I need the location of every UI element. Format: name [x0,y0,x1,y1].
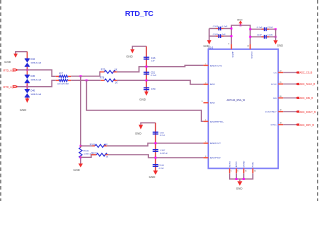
svg-text:IOVDD: IOVDD [250,52,252,59]
wire (RTD_A_P to choke) [18,70,56,77]
svg-text:AIN2: AIN2 [210,102,216,105]
svg-text:18: 18 [280,123,282,125]
svg-text:R105: R105 [90,144,96,146]
svg-text:8: 8 [205,156,206,158]
node junction (D45/D46/RTD_A_N) [26,86,28,88]
node junction (rail/AIN6 line) [155,142,157,144]
wire (choke top out, AIN0 path) [71,72,101,76]
svg-text:GND: GND [4,60,11,64]
capacitor C104 [257,27,274,31]
U16 pin AIN6 (left) [203,141,221,145]
svg-text:ADC_CS_B: ADC_CS_B [300,72,313,75]
capacitor C94 [153,132,166,138]
svg-text:D45: D45 [31,75,36,78]
wire + net flag ADC_DIN_B [283,97,313,100]
svg-text:0.1uF: 0.1uF [257,27,263,29]
svg-text:RTD_TC: RTD_TC [125,9,154,18]
U16 pin SYNC (right) [271,123,284,127]
svg-text:4: 4 [205,120,206,122]
svg-text:D44: D44 [31,58,36,61]
svg-text:0.1uF: 0.1uF [222,26,228,28]
svg-text:GND: GND [73,168,80,172]
wire (choke bottom out, AIN1 path) [71,79,101,81]
svg-text:GND: GND [139,98,146,102]
svg-text:C104: C104 [267,27,273,29]
U16 pin AIN7 (left) [203,156,221,160]
svg-text:R107: R107 [91,153,97,155]
TVS diode D44 [25,58,42,70]
svg-text:GND: GND [126,55,133,59]
ground G5 (divider bottom) [73,164,83,172]
node junction (D44/D45/RTD_A_P) [26,69,28,71]
svg-text:SMBJ5.0A: SMBJ5.0A [31,93,42,96]
svg-text:R76: R76 [100,77,105,80]
svg-text:22: 22 [280,71,282,73]
node junction (ground bus) [235,178,237,180]
common-mode choke L17 [56,72,71,86]
svg-text:AVDD: AVDD [231,52,234,58]
svg-text:ADC_DOUT_B: ADC_DOUT_B [300,111,316,114]
wire (R76 to C51 rail and AIN1 pin) [117,80,203,84]
ground G2 (bottom of TVS chain) [20,99,30,113]
node junction (divider bottom tap) [80,156,82,158]
svg-text:C105: C105 [213,34,219,36]
U16 pin REFOUT (bottom) [229,161,231,173]
resistor R76 [100,77,118,85]
wire + net flag ADC_DOUT_B [283,111,316,114]
node junction (IOVDD/branch bottom) [249,36,251,38]
node junction (ground bus 2) [243,178,245,180]
svg-text:19: 19 [280,110,282,112]
wire (divider top to R105) [81,145,95,147]
svg-text:21: 21 [280,82,282,84]
node junction (rail/AIN1 line) [145,79,147,81]
sheet border left [0,0,2,201]
svg-text:C103: C103 [213,26,219,28]
svg-text:DIN: DIN [273,98,277,100]
svg-text:2: 2 [205,82,206,84]
U16 pin DIN (right) [273,96,283,100]
svg-text:D46: D46 [31,90,36,93]
resistor R105 [90,144,108,147]
wire (G1 to D44) [26,52,28,59]
svg-text:9: 9 [228,44,229,46]
node junction (divider top) [80,145,82,147]
svg-text:GND: GND [20,108,27,112]
svg-text:1K: 1K [115,81,118,84]
svg-text:SCLK: SCLK [271,84,277,86]
svg-text:SMBJ5.0A: SMBJ5.0A [31,62,42,65]
capacitor C51 [144,72,157,78]
svg-text:GND: GND [149,175,156,179]
node junction B (bottom row tap) [86,79,88,81]
svg-text:4.7uF: 4.7uF [159,168,165,170]
ground G8 (left decoupling) [203,40,211,48]
wire + net flag ADC_CS_B [283,71,312,74]
U16 pin AIN3/REFIN (left) [203,120,224,124]
wire (left decoupling branch bottom) [209,35,231,37]
capacitor C108 [153,164,165,170]
wire (R107 to C107 rail and AIN7 pin) [108,155,203,158]
capacitor C70 [144,87,156,91]
capacitor C107 [153,149,169,155]
TVS diode D45 [25,71,42,87]
svg-text:L17: L17 [59,72,64,75]
ground G6 (top of TC cap rail) [135,123,156,136]
node junction (rail/AIN0 line) [145,66,147,68]
svg-text:1: 1 [205,64,206,66]
svg-text:CS: CS [274,72,278,74]
svg-text:AVSS: AVSS [235,161,238,167]
ground G1 (top of TVS chain) [4,52,27,65]
svg-text:AIN6/IOUT: AIN6/IOUT [210,142,221,145]
node junction (right branch bottom end) [275,36,277,38]
svg-text:ADC_DIN_B: ADC_DIN_B [300,97,314,100]
node junction (IOVDD/branch top) [249,28,251,30]
capacitor C16 [144,57,156,63]
wire (R75 to C51 rail and AIN0 pin) [117,65,203,72]
wire (right decoupling branch bottom) [250,36,275,38]
svg-text:1uF: 1uF [151,61,155,63]
svg-text:0.047uF: 0.047uF [160,153,168,155]
resistor R106 (bias divider, vertical) [79,146,94,158]
svg-text:GND: GND [135,131,142,135]
node junction (right branch top end) [275,28,277,30]
wire (tap A down to bias divider) [80,76,82,146]
node junction (rail/AIN7 line) [155,157,157,159]
U16 pin CS (right) [274,71,284,75]
ground G9 (right decoupling) [273,40,283,47]
svg-text:3: 3 [202,101,203,103]
wire (right decoupling branch top) [250,28,275,30]
capacitor C103 [213,26,228,30]
wire (tap B to REFIN pin) [87,80,204,121]
U16 pin AIN0 (left) [203,64,222,68]
svg-text:AIN3/REFIN1-: AIN3/REFIN1- [210,120,224,123]
U16 pin AVDD (top) [228,44,234,58]
svg-text:AD7124_RSA_W: AD7124_RSA_W [227,99,246,102]
svg-text:R106: R106 [84,151,90,153]
svg-text:AIN1: AIN1 [210,83,216,86]
U16 pin DOUT/RDY (right) [265,110,283,114]
op-amp/ADC U16 body [208,46,278,169]
wire (divider to ground) [80,157,82,163]
svg-text:GND: GND [203,44,209,48]
wire (left branches to ground) [208,29,210,41]
svg-text:GND: GND [277,43,283,47]
svg-text:DGND: DGND [244,160,246,167]
svg-text:10: 10 [247,46,249,48]
wire + net flag ADC_RDY_B [283,124,314,127]
capacitor C106 [257,35,274,39]
svg-text:C70: C70 [151,88,156,91]
wire (upper cap rail) [145,46,147,91]
svg-text:20: 20 [280,96,282,98]
sheet border right [317,0,319,201]
node junction A (top row tap) [80,75,82,77]
node junction (AVDD/branch top) [230,28,232,30]
ground G10 (U16 bottom) [236,179,243,191]
wire (bottom pins to ground bus) [230,173,253,179]
capacitor C105 [213,34,226,38]
U16 pin SCLK (right) [271,82,283,86]
svg-text:R75: R75 [101,68,106,71]
svg-text:ADC_RDY_B: ADC_RDY_B [300,124,315,127]
svg-text:4.7uF: 4.7uF [160,135,166,137]
svg-text:AIN7/PSW: AIN7/PSW [210,157,221,160]
wire (power bus to AVDD/IOVDD pins) [231,25,250,44]
svg-text:10uF: 10uF [257,35,263,37]
resistor R75 [100,68,118,73]
U16 pin AVSS (bottom) [235,161,238,173]
svg-text:15: 15 [245,171,247,173]
ground G3 (top of upper cap rail) [126,46,146,58]
wire (left decoupling branch top) [209,28,231,30]
node junction (AVDD/branch bottom) [230,35,232,37]
node junction (power tap) [240,24,242,26]
svg-text:AIN0/IOUT0: AIN0/IOUT0 [210,64,223,67]
power flag +3V3A (above U16) [237,19,243,26]
svg-text:0.1uF: 0.1uF [151,75,157,77]
svg-text:SMBJ5.0A: SMBJ5.0A [31,78,42,81]
svg-text:GND: GND [236,187,243,191]
U16 pin AIN1 (left) [203,82,215,86]
svg-text:SYNC: SYNC [271,125,277,127]
svg-text:C16: C16 [151,57,156,60]
wire (R105 to C107 rail and AIN6 pin) [107,143,203,146]
svg-text:ADC_SCLK_B: ADC_SCLK_B [300,83,316,86]
U16 pin IOVDD (top) [247,44,252,59]
wire (divider bottom to R107) [81,155,97,158]
svg-text:5: 5 [231,171,232,173]
ground G7 (bottom of TC cap rail) [149,171,158,179]
svg-text:16: 16 [254,171,256,173]
wire (TC cap rail) [155,123,157,171]
svg-text:CM CHOKE: CM CHOKE [57,84,69,86]
U16 pin DGND (bottom) [244,160,247,173]
U16 pin PSW (bottom) [253,161,256,173]
svg-text:6: 6 [237,171,238,173]
TVS diode D46 [25,88,42,99]
ground G4 (bottom of upper cap rail) [139,92,148,102]
wire (RTD_A_N to choke) [18,80,56,86]
port RTD_A_N [3,85,17,89]
resistor R107 [91,153,109,159]
svg-text:1uF: 1uF [222,34,226,36]
svg-text:1K: 1K [114,68,117,71]
svg-text:DOUT/RDY: DOUT/RDY [265,112,277,114]
svg-text:C106: C106 [267,35,273,37]
wire (right branches to ground) [275,29,277,40]
wire + net flag ADC_SCLK_B [283,83,315,86]
svg-text:C51: C51 [151,72,156,75]
svg-text:REFO: REFO [229,161,231,167]
port RTD_A_P [3,69,17,73]
U16 pin AIN2 (left, unconnected stub) [202,101,216,105]
svg-text:7: 7 [205,141,206,143]
